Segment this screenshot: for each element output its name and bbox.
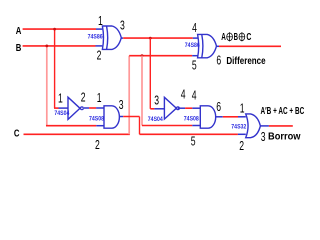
wire A riser down to inverter U3 input — [54, 29, 56, 108]
annotation A xor B xor C — [221, 32, 251, 43]
svg-text:2: 2 — [95, 137, 100, 152]
wire Borrow output — [261, 125, 269, 127]
or gate U7 74S32 — [246, 114, 261, 138]
junction on A wire — [53, 28, 56, 31]
junction on B wire — [45, 45, 48, 48]
inverter U3 74S04 — [68, 97, 83, 119]
wire inverter U3 input — [54, 107, 59, 109]
svg-text:6: 6 — [216, 53, 221, 68]
svg-text:1: 1 — [97, 90, 102, 105]
wire B to XOR1 pin2 — [23, 45, 96, 47]
svg-text:74S04: 74S04 — [148, 116, 163, 123]
svg-text:74S04: 74S04 — [54, 110, 69, 117]
svg-text:74S32: 74S32 — [231, 124, 246, 131]
svg-text:1: 1 — [240, 100, 245, 115]
svg-text:C: C — [14, 129, 20, 140]
wire XOR1 output to XOR2 pin4 — [122, 37, 124, 39]
svg-text:1: 1 — [58, 91, 63, 106]
wire inverter U3 output to AND1 pin1 — [84, 107, 89, 109]
svg-text:5: 5 — [192, 57, 197, 72]
wire inverter U4 output to AND2 pin4 — [178, 107, 185, 109]
svg-text:2: 2 — [81, 90, 86, 105]
wire AND2 pin5 row — [142, 125, 192, 127]
svg-text:2: 2 — [97, 48, 102, 63]
svg-text:B: B — [234, 32, 238, 43]
svg-text:5: 5 — [191, 134, 196, 149]
svg-text:4: 4 — [192, 20, 197, 35]
xor gate U1 74S86 — [102, 26, 121, 49]
svg-text:4: 4 — [192, 88, 197, 103]
svg-text:Difference: Difference — [226, 56, 266, 67]
svg-text:C: C — [246, 32, 251, 43]
svg-text:A: A — [16, 26, 22, 37]
wire AND1 pin2 row — [46, 125, 96, 127]
svg-text:74S86: 74S86 — [185, 42, 200, 49]
wire AND1 output staircase to OR pin2 — [119, 116, 123, 118]
svg-text:3: 3 — [154, 93, 159, 108]
wire A to XOR1 pin1 — [23, 28, 96, 30]
wire B riser down to AND1 pin2 row — [46, 46, 48, 126]
svg-text:3: 3 — [119, 97, 124, 112]
wire XOR1out riser to inverter U4 input — [149, 38, 151, 109]
svg-text:3: 3 — [120, 17, 125, 32]
svg-text:1: 1 — [98, 13, 103, 28]
wire Difference output — [217, 45, 219, 47]
svg-text:A: A — [221, 32, 226, 43]
svg-text:B: B — [16, 43, 22, 54]
wire C down-riser to AND2 pin5 — [141, 56, 143, 126]
and gate U5 74S08 — [104, 106, 119, 128]
junction on pin5 row — [141, 54, 144, 57]
svg-text:4: 4 — [181, 86, 186, 101]
svg-text:6: 6 — [216, 99, 221, 114]
and gate U6 74S08 — [200, 106, 215, 128]
svg-text:2: 2 — [239, 138, 244, 153]
junction on XOR1 output — [149, 37, 152, 40]
wire AND2 output to OR pin1 — [216, 116, 223, 118]
svg-text:74S08: 74S08 — [184, 116, 199, 123]
svg-text:3: 3 — [261, 129, 266, 144]
inverter U4 74S04 — [164, 97, 179, 119]
svg-text:74S08: 74S08 — [89, 116, 104, 123]
wire C horizontal — [24, 133, 130, 135]
wire XOR2 pin5 row — [129, 55, 192, 57]
svg-text:A′B + AC + BC: A′B + AC + BC — [261, 106, 305, 117]
xor gate U2 74S86 — [198, 34, 217, 57]
svg-text:74S86: 74S86 — [88, 33, 103, 40]
wire C riser up to XOR2 pin5 row — [128, 56, 130, 135]
svg-text:Borrow: Borrow — [268, 132, 301, 143]
